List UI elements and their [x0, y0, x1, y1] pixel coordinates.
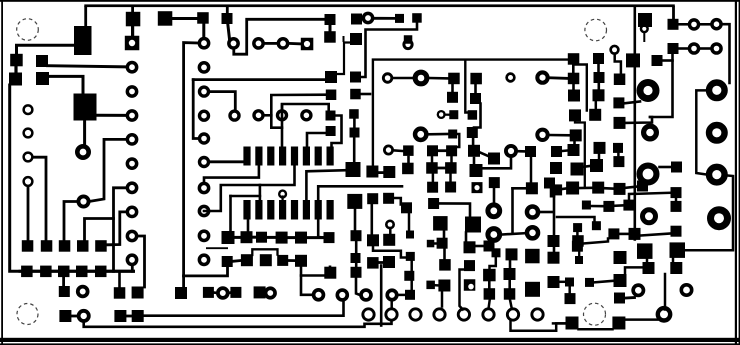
- pad Z2: [401, 202, 412, 213]
- wire y95 trace: [271, 93, 326, 96]
- pad chain-5: [295, 232, 307, 244]
- wire R1-2 to Q2: [49, 76, 84, 93]
- pad T2: [614, 117, 626, 129]
- wire brow bar12: [233, 259, 241, 263]
- wire CN2-12 to pad5top: [204, 166, 295, 211]
- wire irow stem a: [553, 247, 556, 252]
- pad Z4 ring: [386, 221, 393, 228]
- pad chain-2: [241, 231, 253, 243]
- wire y135a left: [550, 134, 570, 137]
- pad krow-3: [565, 293, 576, 304]
- wire P1 via stub: [643, 33, 645, 41]
- pad U8-1: [351, 14, 362, 25]
- mounting hole top-left: [17, 19, 39, 41]
- pad CN1-8: [127, 207, 136, 216]
- wire row1-5 right: [107, 244, 112, 247]
- pad U6-3: [326, 126, 336, 136]
- wire IC1 pin marker stem: [282, 197, 284, 201]
- wire crow via bar: [399, 294, 405, 297]
- wire X1-e bar: [445, 113, 450, 115]
- wire drow bar: [435, 284, 439, 287]
- pad CN4-a small: [507, 74, 515, 82]
- hole J1-4: [24, 177, 33, 186]
- wire xrow stem: [576, 232, 579, 241]
- pad ring614: [611, 46, 619, 54]
- wire AD stem: [465, 233, 468, 243]
- wire S1 bar a: [679, 23, 688, 26]
- pad y150-a: [568, 144, 580, 156]
- wire bottom long trace: [193, 78, 326, 81]
- pad CN2-10: [200, 158, 209, 167]
- pad S1-2: [689, 20, 698, 29]
- wire X2-d stem: [472, 138, 475, 146]
- pad wrow-1 small: [592, 221, 601, 230]
- wire 554 top: [551, 189, 554, 196]
- pad X2-b: [470, 93, 481, 104]
- wire U8-1 to CN3: [358, 17, 363, 20]
- wire lrow bar: [594, 281, 614, 283]
- pad drow-2: [438, 280, 450, 292]
- pad AL: [526, 182, 538, 194]
- wire 512 top: [513, 187, 527, 190]
- outline mark above CN2-14: [206, 247, 228, 249]
- pad prow-0: [671, 226, 682, 237]
- pad y96-a: [568, 90, 580, 102]
- wire row7 bar b: [228, 291, 231, 294]
- wire S3 to vert: [663, 59, 673, 62]
- pad Y2-2: [445, 162, 457, 174]
- pad erow-2 keyhole: [464, 279, 476, 291]
- IC1 bottom row pad 8: [327, 200, 334, 220]
- wire R4-2 路: [362, 23, 418, 78]
- border bottom outer edge: [0, 343, 740, 345]
- pad Z3: [367, 234, 379, 246]
- pad row3 via: [78, 287, 88, 297]
- IC1 bottom row pad 4: [279, 200, 286, 220]
- pad Q2 via: [77, 146, 88, 157]
- wire krow bar: [560, 281, 565, 284]
- pad X1-b: [415, 72, 427, 84]
- pad N1: [671, 162, 682, 173]
- wire X1-c stem: [451, 84, 454, 92]
- wire y59a stem: [572, 65, 575, 73]
- pad jrow-2 small: [575, 256, 583, 264]
- wire X2-e bar: [480, 153, 488, 157]
- pad U8-4: [350, 72, 361, 83]
- pad srow-1: [566, 317, 579, 330]
- wire yrow bar: [619, 233, 629, 236]
- wire row7 bar c: [264, 291, 266, 294]
- wire CN1-4 to Q2: [96, 114, 126, 117]
- wire urow stem: [675, 198, 678, 201]
- wire T3-T4 stem: [617, 153, 620, 157]
- wire rail stem to Q1: [84, 6, 87, 26]
- pad U7-8: [351, 267, 362, 278]
- pad CN1-4: [127, 111, 136, 120]
- pad chain-6: [324, 232, 335, 243]
- wire chain2 stem up: [247, 220, 250, 231]
- pad CN3-1: [363, 13, 372, 22]
- pad row7-2: [230, 287, 241, 298]
- wire row7 bar a: [214, 291, 216, 294]
- wire qrow left trace: [625, 318, 658, 321]
- pad CN2-13: [199, 231, 208, 240]
- pad P1 via: [641, 25, 648, 32]
- pad R4-1: [395, 14, 404, 23]
- wire S2 bar b: [700, 47, 710, 50]
- pad W3-2: [402, 163, 414, 175]
- IC1 bottom row pad 2: [255, 200, 262, 220]
- wire X2-e to g stem: [473, 158, 476, 164]
- pad U4-a: [158, 11, 173, 26]
- wire row5 bar: [71, 315, 77, 318]
- wire R3-1 stem: [228, 24, 230, 39]
- wire Y23 stem a: [432, 174, 435, 182]
- pad S2-3: [712, 44, 721, 53]
- pad hrow big: [525, 282, 540, 297]
- border outer top edge: [0, 0, 740, 2]
- pad lrow-1 small: [585, 278, 594, 287]
- wire to sq619: [626, 117, 653, 123]
- wire bottom trace 326: [84, 321, 392, 327]
- wire pad2top to CN2-11: [204, 166, 259, 184]
- pad CN2-7: [230, 111, 239, 120]
- pad X1-e ring: [438, 111, 445, 118]
- wire CN4-b to sq: [550, 76, 568, 79]
- wire R3-1 to rail: [226, 6, 229, 13]
- wire y115a jog: [575, 121, 585, 187]
- pad U7-6: [351, 230, 362, 241]
- pad U6-1: [326, 90, 337, 101]
- pad CN2-11: [199, 183, 208, 192]
- wire U8-2 thin: [337, 43, 351, 75]
- wire D2-2 top: [282, 104, 329, 110]
- pad CN1-9: [127, 231, 136, 240]
- pad Y1-2: [446, 145, 457, 156]
- wire D2-2 stems: [281, 105, 284, 147]
- wire CN1-5 to D1: [90, 139, 127, 201]
- wire BIG5 right: [660, 166, 672, 169]
- pad AC: [439, 259, 451, 271]
- pad CN2-14: [199, 255, 208, 264]
- wire brow jumper: [252, 249, 277, 255]
- pad y169-b: [571, 163, 584, 176]
- pad brow-1: [222, 256, 233, 267]
- pad krow-1: [548, 276, 560, 288]
- wire trace y236: [641, 234, 671, 236]
- IC1 bottom row pad 7: [315, 200, 322, 220]
- wire pad7bot trace: [318, 186, 402, 237]
- pad CN2-8: [200, 111, 209, 120]
- pad zrow-1: [551, 184, 562, 195]
- pad row5-1: [59, 310, 71, 322]
- pad W1-1: [366, 166, 378, 178]
- wire U7-1 right: [361, 93, 370, 96]
- wire crow vert: [380, 266, 383, 326]
- pad AD big: [465, 217, 481, 233]
- wire AF stem up: [491, 240, 493, 243]
- pad krow-2 small: [565, 278, 574, 287]
- pad W3-1: [403, 145, 414, 156]
- wire ring6 stem: [489, 300, 490, 307]
- IC1 top row pad 7: [315, 147, 322, 166]
- pad prow big: [670, 242, 686, 258]
- pad y148-c: [594, 142, 606, 154]
- pad CN2-9: [200, 134, 209, 143]
- wire drow stem: [441, 292, 444, 307]
- wire vert x634: [633, 6, 636, 240]
- pad AF: [484, 241, 495, 252]
- pad row6-1: [114, 310, 126, 322]
- pad X2-d: [467, 127, 478, 138]
- pad mrow-1: [614, 251, 627, 264]
- IC1 pin1 marker ring: [279, 191, 286, 198]
- wire wrow path: [557, 217, 595, 221]
- pad y115-b: [589, 109, 601, 121]
- pad K2 keyhole square: [404, 35, 413, 44]
- pad y165-a: [590, 159, 603, 172]
- border right inner line: [735, 0, 737, 345]
- wire X1 b-c: [429, 77, 448, 80]
- pad V2: [525, 146, 536, 157]
- pad grow-top: [506, 248, 518, 260]
- wire U6-3 to pad6: [307, 133, 326, 147]
- wire trow3 up: [629, 193, 670, 200]
- pad row4-2: [132, 287, 144, 299]
- pad BIG-6: [711, 210, 728, 227]
- wire chain4-5: [288, 236, 295, 239]
- pad X2-a: [470, 73, 482, 85]
- pad brow via2: [337, 290, 347, 300]
- pad R3-1: [222, 13, 233, 24]
- wire srow left: [553, 322, 566, 325]
- pad CN2-12: [199, 206, 208, 215]
- pad y151-b: [551, 146, 562, 157]
- pad yrow-1: [608, 228, 619, 239]
- pad U3 body: [126, 12, 141, 26]
- wire x183 end: [182, 276, 185, 288]
- pad K2 marker: [343, 36, 345, 42]
- pad V3: [537, 130, 547, 140]
- wire Z2 stem: [408, 213, 411, 230]
- pad grow-1: [504, 268, 516, 280]
- pad Y3-2: [445, 182, 456, 193]
- pad frow-1: [483, 269, 496, 282]
- pad X1-d: [447, 92, 458, 103]
- pad X2-e: [468, 145, 480, 157]
- wire lrow2 path: [625, 267, 642, 274]
- wire row2 rail: [20, 270, 134, 273]
- wire grow stem a: [509, 260, 512, 268]
- pad W1-2: [383, 166, 395, 178]
- wire CN1-10 stem: [131, 266, 134, 271]
- pad qrow ring: [658, 308, 670, 320]
- wire Y2 bar: [438, 167, 445, 170]
- pad BIG-4: [709, 167, 725, 183]
- pad U7-3: [350, 128, 360, 138]
- pad X2-g: [470, 164, 483, 177]
- pad trow-3: [623, 200, 634, 211]
- wire row6 bar: [126, 315, 131, 318]
- pad U5-2: [324, 31, 336, 43]
- wire C1 stem: [14, 66, 17, 73]
- pad brow-6: [324, 267, 336, 279]
- IC1 bottom row pad 6: [303, 200, 310, 220]
- pad S1-3: [712, 20, 721, 29]
- wire V1 down: [481, 158, 511, 168]
- IC1 top row pad 5: [291, 147, 298, 166]
- pad Z1-2: [383, 193, 394, 204]
- mounting hole bottom-right: [584, 303, 606, 325]
- pad U7-5 big: [347, 194, 362, 209]
- wire zrow bar a: [562, 187, 566, 190]
- wire W2 bar: [394, 149, 403, 152]
- pad D2-3 isolated: [302, 111, 311, 120]
- wire AE bar: [476, 245, 484, 248]
- pad y79-c: [614, 74, 626, 86]
- wire CN1-9 to sq: [138, 236, 144, 287]
- IC1 top row pad 2: [255, 147, 262, 166]
- pad row2-5: [95, 266, 107, 278]
- pad U5-1: [325, 14, 336, 25]
- wire W3 stem: [407, 157, 410, 164]
- pad crow-1: [367, 257, 379, 269]
- wire top power rail: [84, 4, 675, 7]
- pad Z1-1: [367, 193, 378, 204]
- pad y115-a: [569, 109, 581, 121]
- wire z3 path: [373, 246, 405, 257]
- pad M1: [644, 126, 657, 139]
- hole ring row 3: [410, 309, 421, 320]
- wire long vert554: [553, 196, 556, 235]
- pad crow-3: [406, 252, 415, 261]
- wire sq228 stem: [229, 196, 232, 232]
- pad AH: [489, 177, 500, 188]
- wire rail stem to S1-1: [672, 6, 675, 20]
- pad CN1-5: [127, 135, 136, 144]
- box X1 divider: [465, 61, 468, 113]
- wire ring2 stem up: [390, 301, 393, 307]
- pad crow via: [387, 290, 397, 300]
- wire AM right: [540, 211, 553, 214]
- wire X2-a stem: [474, 84, 477, 94]
- border bottom thick line: [0, 338, 740, 342]
- pad CN4-b: [537, 72, 547, 82]
- pad irow-1: [548, 235, 560, 247]
- pad brow via3: [361, 290, 371, 300]
- wire V4 to sq: [429, 133, 449, 136]
- wire U7 stem d: [355, 241, 358, 253]
- pad T1: [613, 97, 624, 108]
- pad row1-5: [95, 240, 107, 252]
- pad S3: [652, 55, 663, 66]
- wire Y23 stem b: [449, 174, 452, 182]
- pad xrow-2: [572, 241, 583, 252]
- wire CN2-10 to IC1 pad1: [210, 160, 244, 163]
- pad y96-b: [593, 89, 605, 101]
- pad row1-2: [41, 240, 53, 252]
- hole J1-2: [24, 129, 33, 138]
- pad T4: [613, 156, 624, 167]
- pad y135-a: [570, 129, 582, 141]
- pad U6-2: [326, 111, 336, 121]
- pad xrow-1 small: [573, 223, 582, 232]
- pad zrow-5: [637, 181, 648, 192]
- wire W1 bar: [378, 171, 383, 174]
- box X1 outline: [373, 60, 569, 166]
- hole ring row 8: [532, 309, 543, 320]
- wire J1-4 down: [27, 187, 30, 241]
- pad frow-top small: [492, 248, 501, 257]
- wire row2-3 stem down: [62, 277, 65, 286]
- pad erow-1: [464, 260, 475, 271]
- pad S1-1: [668, 19, 679, 30]
- pad frow-2: [484, 288, 496, 300]
- wire CN1-7 to pad row1-4: [85, 219, 114, 242]
- pad row4-3: [175, 287, 187, 299]
- wire xrow right: [583, 239, 608, 244]
- pad nrow-1: [614, 293, 625, 304]
- wire D2-1 link: [265, 114, 272, 117]
- wire prow right trace: [685, 176, 733, 251]
- pad urow-2: [671, 201, 682, 212]
- wire CN2-6 link: [210, 92, 235, 110]
- pad CN2-2: [229, 39, 238, 48]
- wire Y12 stem b: [450, 156, 453, 162]
- pad U8-3: [325, 71, 337, 83]
- wire U3 stem: [131, 26, 134, 37]
- pad X1-c: [448, 73, 460, 85]
- pad BIG-2: [709, 83, 725, 99]
- pad row3-1: [59, 286, 70, 297]
- pad U8-2: [350, 33, 362, 45]
- wire rail to sq261: [184, 268, 228, 276]
- pad C1-1: [10, 54, 23, 67]
- pad D1 via: [78, 196, 88, 206]
- wire ring5 stem path: [460, 270, 465, 310]
- wire zrow bar b: [579, 187, 592, 190]
- pad Z6 small: [406, 231, 414, 239]
- pad P1 big: [638, 13, 652, 27]
- wire ring614 path: [615, 55, 621, 74]
- wire Z7 right: [439, 203, 470, 217]
- wire AB bar: [434, 242, 436, 245]
- wire chain2-3: [253, 236, 257, 239]
- pad AI: [488, 205, 500, 217]
- pad trow-1 small: [582, 201, 591, 210]
- pad CN1-10: [127, 255, 136, 264]
- wire V4 path down: [457, 134, 460, 147]
- hole J1-1: [24, 105, 33, 114]
- wire ring7 down trace: [511, 320, 566, 331]
- IC1 bottom row pad 5: [291, 200, 298, 220]
- wire U7 stem b: [353, 138, 356, 163]
- wire U7-8 to via: [356, 278, 360, 295]
- pad crow-5: [405, 290, 415, 300]
- wire CN2-1 rail: [184, 43, 198, 276]
- pad X2-f: [488, 153, 500, 165]
- pad BIG-3: [709, 125, 725, 141]
- IC1 top row pad 3: [267, 147, 274, 166]
- wire U6-2 to pad8: [332, 116, 342, 148]
- pad row2-2: [40, 266, 52, 278]
- pad top y78-a: [568, 73, 580, 85]
- pad AG square with hole: [472, 182, 483, 193]
- IC1 top row pad 1: [243, 147, 250, 166]
- hole J1-3: [24, 153, 33, 162]
- pad top y59-a: [568, 53, 580, 64]
- hole ring row 6: [483, 309, 494, 320]
